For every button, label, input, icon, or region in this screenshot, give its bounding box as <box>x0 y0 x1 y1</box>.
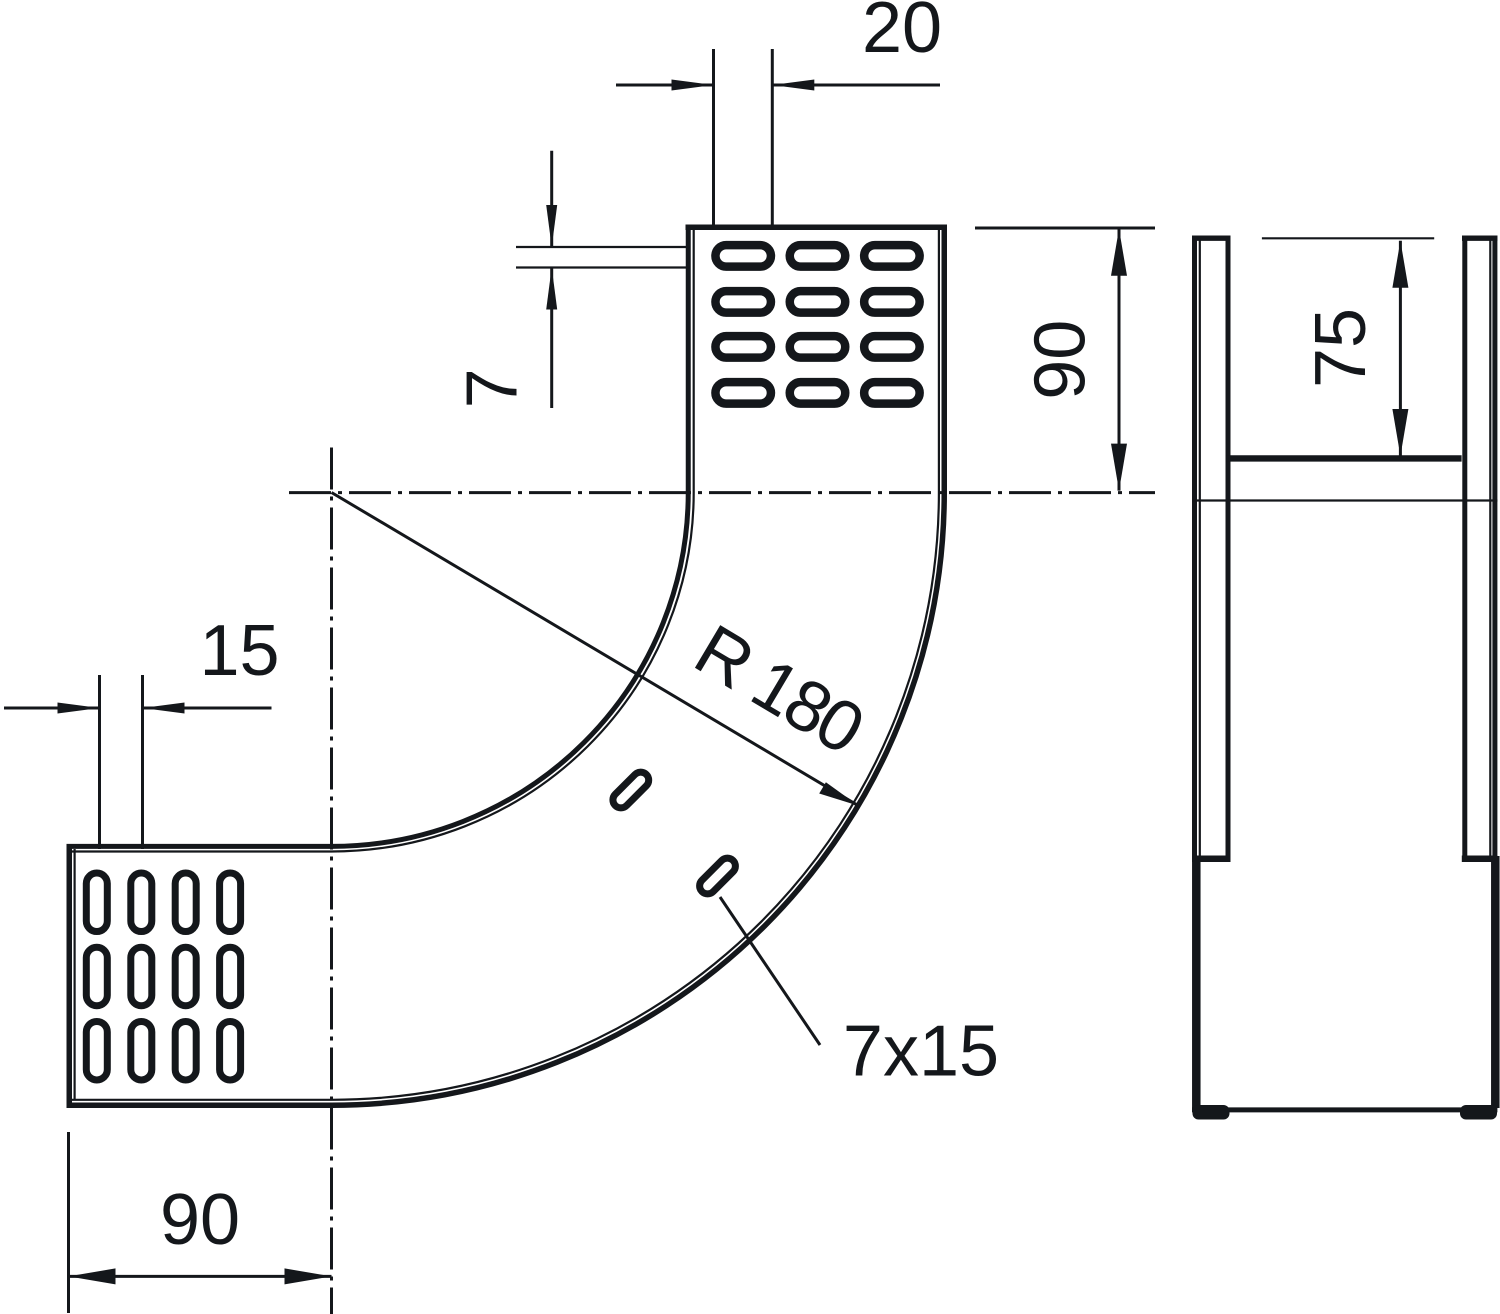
outer thin fold line (follows outer edge) <box>72 230 939 1100</box>
side view right rail outer wall <box>1492 236 1497 859</box>
top arm slot row4 <box>715 382 919 404</box>
centerline vertical <box>330 448 333 1314</box>
dim 90 bottom: dimension line with inside arrows <box>69 1275 332 1278</box>
side view right foot <box>1460 1105 1497 1120</box>
svg-text:7x15: 7x15 <box>843 1012 999 1092</box>
svg-text:90: 90 <box>160 1180 240 1260</box>
side view right rail top cap <box>1462 235 1497 240</box>
svg-text:15: 15 <box>199 611 279 691</box>
svg-text:20: 20 <box>862 0 942 68</box>
dim R180: radius line with arrow at outer arc <box>332 493 859 806</box>
dim 15: dimension line with outside arrows <box>4 707 100 710</box>
dim 15: extension lines <box>98 675 101 849</box>
side view left foot <box>1193 1105 1230 1120</box>
dim 7: dimension line with outside arrows <box>550 151 553 247</box>
left arm inner thin fold line <box>73 849 75 1099</box>
left arm slot row2 <box>86 947 240 1006</box>
side view left rail top cap <box>1192 235 1231 240</box>
svg-text:90: 90 <box>1021 320 1101 400</box>
side view back edge thin line <box>1192 499 1497 501</box>
side view right rail inner wall <box>1462 236 1467 859</box>
side view left rail outer wall <box>1192 236 1197 859</box>
dim 20: dimension line with outside arrows <box>616 84 714 87</box>
left arm slot row3 <box>86 1021 240 1079</box>
left arm slot row1 <box>86 873 240 932</box>
side view left rail thin fold line <box>1199 238 1201 859</box>
centerline horizontal <box>289 491 1155 494</box>
bend web slot A <box>610 769 652 811</box>
dim 7x15: leader line from slot B <box>720 897 820 1045</box>
tray bend inner edge (thick): left wall of top arm + inner arc + top of left arm <box>67 225 689 847</box>
side view tray bottom crossbar <box>1226 455 1462 461</box>
dim 90 right: dimension line with inside arrows <box>1118 229 1121 491</box>
svg-text:75: 75 <box>1301 308 1381 388</box>
top arm end cap <box>686 225 948 231</box>
dim 75: extension line <box>1262 237 1434 239</box>
dim 90 right: extension line <box>975 227 1155 230</box>
tray bend outer edge (thick): right wall of top arm + R outer arc + bottom of left arm <box>67 225 945 1106</box>
side view left rail inner wall <box>1226 236 1231 859</box>
top arm slot row3 <box>715 336 919 358</box>
side view right rail thin fold line <box>1489 238 1491 859</box>
side view left rail bottom cap <box>1192 855 1231 862</box>
inner thin fold line (follows inner edge) <box>72 230 694 852</box>
svg-text:7: 7 <box>453 368 533 408</box>
side view right rail bottom cap <box>1462 855 1498 862</box>
dim 20: extension lines <box>712 49 715 225</box>
top arm slot row1 <box>715 245 919 267</box>
dim 90 bottom: extension line <box>67 1132 70 1313</box>
dim 75: dimension line with inside arrows <box>1399 241 1402 456</box>
side view bottom edge <box>1192 1107 1497 1112</box>
left arm end cap <box>67 844 73 1108</box>
top arm slot row2 <box>715 291 919 313</box>
bend web slot B <box>696 855 738 897</box>
dim 7: extension lines <box>516 246 686 248</box>
